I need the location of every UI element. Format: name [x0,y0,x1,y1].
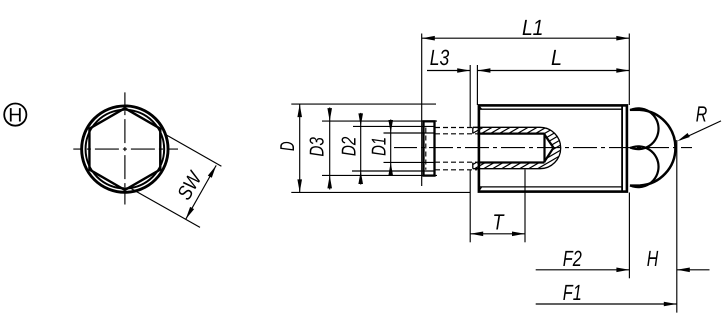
SW arrow lower [186,207,194,219]
svg-text:H: H [8,105,22,127]
T arrow left [470,232,483,237]
svg-text:D: D [277,142,299,152]
inner circle [86,110,165,189]
L arrow left [477,68,490,73]
D extension top [291,103,436,105]
F2 extension vertical [628,193,630,279]
L arrow right [616,68,629,73]
svg-text:D1: D1 [368,137,390,156]
F2 dimension line [536,269,630,271]
L1 dimension line [422,37,630,39]
D extension bottom [291,191,470,193]
pin stub outline [424,121,435,175]
svg-text:H: H [647,246,659,271]
H dimension line [677,269,710,271]
L left extension above body [476,65,478,105]
svg-text:L1: L1 [522,15,544,40]
D arrow bottom [297,179,302,192]
L3 dimension line [427,70,470,72]
D dimension line [299,104,301,192]
SW extension line lower [129,187,200,227]
ball top shoulder line [630,109,641,111]
body corner chamfer top-left [479,106,482,109]
body crimp vertical right [621,106,623,191]
L3/T extension line lower segment [469,170,471,243]
D3 arrow top [327,108,332,121]
body outline [479,105,627,191]
hidden dashed line D1 bottom [435,161,477,163]
D1 extension bottom [384,161,435,163]
SW dimension line [186,165,217,219]
F2 arrow [616,268,629,273]
svg-text:T: T [493,210,505,235]
ball arc [640,110,675,186]
D3 arrow bottom [327,175,332,188]
R leader arrow [677,133,690,141]
D1 arrow top [388,120,393,133]
svg-text:L: L [551,45,562,70]
svg-text:L3: L3 [430,45,450,70]
H extension vertical [676,140,678,313]
D2 dimension line [360,113,362,185]
hexagon [89,108,160,190]
D1 arrow bottom [388,162,393,175]
D3 dimension line [329,108,331,190]
SW extension line upper [166,135,221,166]
lower lip arc [630,146,658,187]
T dimension line [470,233,525,235]
bore end vertical [543,134,545,163]
outer circle (body OD) [82,106,168,192]
hidden dashed line D2 top [435,127,477,129]
svg-text:F2: F2 [563,246,582,271]
main centerline right view [394,147,692,149]
sleeve outer bottom thin [473,168,540,170]
L1 extension line left [421,34,423,187]
hidden dashed line D2 bottom [435,169,477,171]
L1/L extension line right [628,34,630,106]
T extension right [524,170,526,243]
L1 arrow right [616,36,629,41]
T arrow right [512,232,525,237]
D1 dimension line [390,120,392,176]
L3 extension line upper segment [469,65,471,127]
body chamfer line bottom [480,186,623,188]
H arrow [677,268,690,273]
sleeve dome outer arc [540,127,561,168]
svg-text:D3: D3 [307,137,329,157]
R leader line [680,121,721,140]
sleeve lip verticals [472,127,474,133]
hex view vertical centerline [124,92,126,204]
ball bottom shoulder line [630,184,641,186]
L1 arrow left [422,36,435,41]
sleeve outer top thin [473,126,540,128]
D2 extension bottom [352,170,434,172]
D2 arrow bottom [358,171,363,184]
body corner chamfer bottom-left [479,187,482,191]
SW arrow upper [208,165,216,177]
svg-text:R: R [696,101,708,126]
D3 extension top [322,120,437,122]
F1 arrow [664,302,677,307]
F1 dimension line [536,303,677,305]
view label circle H [4,104,26,126]
D1 extension top [384,132,435,134]
hidden socket vertical dashed in stub [425,128,427,170]
svg-text:D2: D2 [338,137,360,157]
hex view horizontal centerline [73,148,178,150]
D arrow top [297,104,302,117]
body chamfer line top [480,108,623,110]
upper lip arc [630,108,658,149]
D2 extension top [353,125,434,127]
hidden dashed line D1 top [435,133,477,135]
sleeve bore bottom thick [477,161,544,163]
L dimension line [477,70,629,72]
svg-text:F1: F1 [563,280,582,305]
L3 arrow [457,68,470,73]
drill cone [545,135,554,162]
sleeve bore top thick [477,132,544,134]
D2 arrow top [358,113,363,126]
D3 extension bottom [322,174,437,176]
